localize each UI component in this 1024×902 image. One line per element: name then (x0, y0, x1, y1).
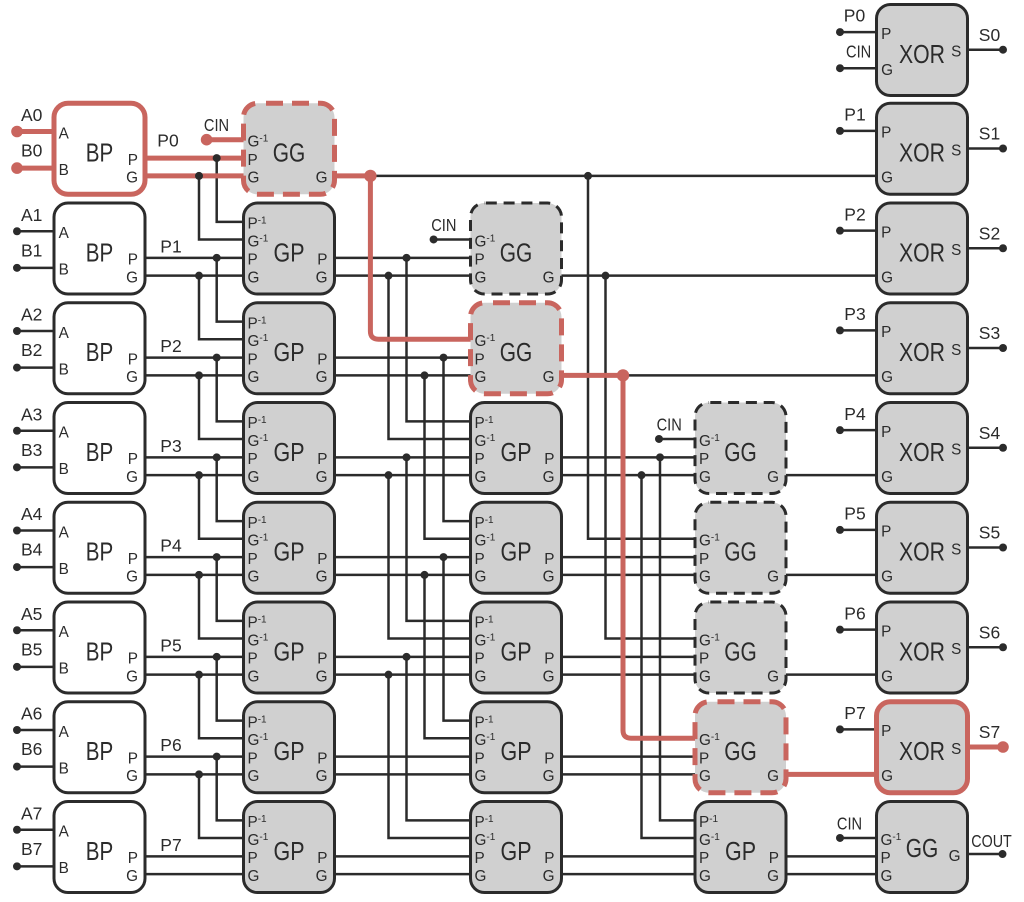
output terminal dot S4 (999, 444, 1007, 452)
svg-text:G: G (316, 469, 328, 486)
svg-text:P: P (475, 252, 485, 269)
svg-text:G: G (316, 868, 328, 885)
svg-text:P: P (475, 451, 485, 468)
buffer/propagate block BP7 (bit 7 inputs) (54, 802, 145, 893)
svg-text:G: G (881, 868, 893, 885)
group-propagate block GP level1 row2 (244, 303, 335, 394)
wire level1 row2 P down to level2 row4 P-1 input (444, 358, 471, 521)
svg-text:B3: B3 (21, 440, 42, 460)
svg-text:XOR: XOR (899, 239, 945, 267)
output terminal dot S7 (997, 741, 1009, 753)
input stub CIN to level2 GG row1 (434, 238, 471, 241)
svg-text:P: P (475, 750, 485, 767)
wire level2 row4 P out to level3 row4 (562, 556, 696, 559)
svg-text:XOR: XOR (899, 339, 945, 367)
svg-text:A: A (59, 225, 70, 242)
input terminal dot B5 (13, 663, 21, 671)
svg-text:A: A (59, 425, 70, 442)
svg-text:P: P (128, 651, 138, 668)
svg-text:G: G (543, 269, 555, 286)
buffer/propagate block BP4 (bit 4 inputs) (54, 502, 145, 593)
wire level2 row4 G out to level3 row4 (562, 574, 696, 577)
svg-text:B5: B5 (21, 639, 42, 659)
svg-text:P: P (248, 551, 258, 568)
junction level1 row1 P tap (403, 254, 411, 262)
input terminal dot A0 (11, 126, 23, 138)
svg-text:P7: P7 (160, 835, 181, 855)
input terminal dot B2 (13, 364, 21, 372)
group-generate block GG level2 row1 (carry c2) (471, 203, 562, 294)
sum XOR block S7 (877, 702, 968, 793)
wire carry c3 to XOR S3 G input (623, 374, 877, 377)
group-generate block GG level3 row4 (carry c5) (695, 502, 786, 593)
input terminal dot P0 (XOR S0) (836, 28, 844, 36)
wire carry c7 (highlighted) GG level3 row6 out to XOR S7 G input (786, 772, 877, 777)
svg-text:P: P (317, 850, 327, 867)
input stub B5 (17, 666, 54, 669)
input terminal dot A6 (13, 726, 21, 734)
svg-text:B: B (59, 461, 69, 478)
junction level2 row3 G tap (638, 471, 646, 479)
group-generate block GG level3 row5 (carry c6) (695, 602, 786, 693)
wire P1 tap down to level1 row2 P-1 input (217, 258, 244, 322)
svg-text:P4: P4 (844, 404, 866, 424)
svg-text:B: B (59, 561, 69, 578)
input terminal dot B4 (13, 563, 21, 571)
svg-text:G: G (767, 469, 779, 486)
wire level2 row3 G out to level3 row3 (562, 474, 696, 477)
input stub CIN to XOR S0 G (840, 67, 877, 70)
svg-text:P2: P2 (160, 336, 181, 356)
output stub S1 (968, 147, 1004, 150)
svg-text:G: G (248, 469, 260, 486)
output stub S7 (968, 745, 1004, 750)
svg-text:G: G (316, 269, 328, 286)
input terminal dot P3 (XOR) (836, 326, 844, 334)
svg-text:G: G (475, 369, 487, 386)
wire G0 tap down to level1 row1 G-1 input (199, 176, 244, 240)
svg-text:BP: BP (86, 638, 114, 666)
svg-text:A7: A7 (21, 803, 42, 823)
svg-text:GP: GP (501, 738, 532, 766)
wire carry c3 (highlighted) GG level2 row2 out to junction (562, 373, 624, 378)
wire G3 from BP3 to level1 row3 (145, 474, 244, 477)
input terminal dot B7 (13, 862, 21, 870)
svg-text:S5: S5 (979, 523, 1000, 543)
wire level1 row2 G down to level2 row4 G-1 input (425, 375, 471, 538)
svg-text:A: A (59, 524, 70, 541)
wire level1 row3 G down to level2 row5 G-1 input (389, 475, 471, 638)
wire level2 row6 G out to level3 row6 (562, 773, 696, 776)
input terminal dot B0 (11, 162, 23, 174)
wire G7 from BP7 to level1 row7 (145, 873, 244, 876)
svg-text:P: P (248, 351, 258, 368)
svg-text:P: P (317, 451, 327, 468)
svg-text:GG: GG (724, 738, 757, 766)
svg-text:XOR: XOR (899, 41, 945, 69)
wire P6 from BP6 to level1 row6 (145, 755, 244, 758)
output terminal dot S1 (999, 145, 1007, 153)
svg-text:S: S (951, 342, 961, 359)
junction level1 row5 G tap (385, 671, 393, 679)
svg-text:G: G (126, 569, 138, 586)
wire level1 row5 P out to level2 row5 (335, 656, 471, 659)
wire carry c4 GG level3 row3 out to XOR S4 G input (786, 474, 877, 477)
svg-text:CIN: CIN (204, 115, 229, 135)
svg-text:GP: GP (274, 339, 305, 367)
svg-text:G: G (767, 668, 779, 685)
svg-text:B2: B2 (21, 340, 42, 360)
svg-text:P3: P3 (844, 304, 865, 324)
output stub S3 (968, 347, 1004, 350)
output stub S0 (968, 48, 1004, 51)
group-propagate block GP level1 row4 (244, 502, 335, 593)
svg-text:G: G (881, 569, 893, 586)
wire carry c1 (highlighted) down to GG level2 row2 G-1 input (370, 176, 470, 339)
svg-text:XOR: XOR (899, 738, 945, 766)
input terminal dot P5 (XOR) (836, 526, 844, 534)
svg-text:G: G (881, 269, 893, 286)
svg-text:G: G (881, 62, 893, 79)
wire level1 row4 P out to level2 row4 (335, 556, 471, 559)
svg-text:A: A (59, 624, 70, 641)
input stub P3 to XOR S3 (840, 329, 877, 332)
wire level1 row7 G out to level2 row7 (335, 873, 471, 876)
svg-text:A: A (59, 125, 70, 142)
svg-text:P: P (317, 750, 327, 767)
wire carry c2 down to GG level3 row5 G-1 input (606, 276, 696, 639)
svg-text:XOR: XOR (899, 439, 945, 467)
wire carry c1 to XOR S1 G input (370, 175, 876, 178)
svg-text:S: S (951, 641, 961, 658)
group-propagate block GP level1 row6 (244, 702, 335, 793)
svg-text:S1: S1 (979, 124, 1000, 144)
svg-text:A: A (59, 724, 70, 741)
svg-text:A6: A6 (21, 704, 42, 724)
wire G1 tap down to level1 row2 G-1 input (199, 276, 244, 340)
wire level2 row7 G out to level3 row7 (562, 873, 696, 876)
svg-text:P: P (881, 424, 891, 441)
junction level1 row3 P tap (403, 453, 411, 461)
svg-text:P: P (128, 152, 138, 169)
junction carry c1 (highlighted) (364, 170, 376, 182)
wire P1 from BP1 to level1 row1 (145, 257, 244, 260)
output stub S5 (968, 546, 1004, 549)
output stub S6 (968, 646, 1004, 649)
svg-text:A0: A0 (21, 105, 43, 125)
svg-text:S: S (951, 242, 961, 259)
svg-text:BP: BP (86, 439, 114, 467)
svg-text:G: G (126, 269, 138, 286)
svg-text:G: G (699, 569, 711, 586)
input terminal dot P2 (XOR) (836, 227, 844, 235)
svg-text:P: P (128, 850, 138, 867)
wire level2 row7 P out to level3 row7 (562, 855, 696, 858)
svg-text:P0: P0 (157, 130, 179, 150)
wire P5 from BP5 to level1 row5 (145, 656, 244, 659)
output terminal dot S2 (999, 244, 1007, 252)
junction carry c2 vertical (602, 272, 610, 280)
group-propagate block GP level1 row5 (244, 602, 335, 693)
buffer/propagate block BP6 (bit 6 inputs) (54, 702, 145, 793)
svg-text:P1: P1 (844, 105, 865, 125)
svg-text:P: P (317, 651, 327, 668)
wire level2 row6 P out to level3 row6 (562, 755, 696, 758)
svg-text:A2: A2 (21, 305, 42, 325)
svg-text:A5: A5 (21, 604, 42, 624)
wire level1 row1 G down to level2 row3 G-1 input (389, 276, 471, 439)
svg-text:G: G (475, 668, 487, 685)
wire G2 from BP2 to level1 row2 (145, 374, 244, 377)
input terminal dot CIN (level2 GG) (430, 235, 438, 243)
wire level2 row3 P out to level3 row3 (562, 456, 696, 459)
wire level1 row5 G down to level2 row7 G-1 input (389, 675, 471, 838)
svg-text:G: G (767, 569, 779, 586)
svg-text:G: G (699, 668, 711, 685)
svg-text:BP: BP (86, 738, 114, 766)
input terminal dot B3 (13, 463, 21, 471)
wire level1 row3 P down to level2 row5 P-1 input (407, 457, 471, 620)
svg-text:BP: BP (86, 539, 114, 567)
junction carry c3 (highlighted) (617, 369, 629, 381)
svg-text:G: G (881, 469, 893, 486)
output terminal dot S5 (999, 544, 1007, 552)
svg-text:G: G (475, 768, 487, 785)
group-propagate block GP level2 row5 (471, 602, 562, 693)
svg-text:BP: BP (86, 838, 114, 866)
sum XOR block S4 (877, 403, 968, 494)
svg-text:P: P (248, 451, 258, 468)
svg-text:B6: B6 (21, 739, 42, 759)
svg-text:S6: S6 (979, 622, 1000, 642)
group-propagate block GP level1 row7 (244, 802, 335, 893)
wire level1 row5 P down to level2 row7 P-1 input (407, 657, 471, 821)
svg-text:A4: A4 (21, 504, 43, 524)
wire carry c1 down to GG level3 row4 G-1 input (588, 176, 695, 539)
svg-text:G: G (881, 369, 893, 386)
wire level1 row6 P out to level2 row6 (335, 755, 471, 758)
wire level1 row4 G out to level2 row4 (335, 574, 471, 577)
svg-text:A: A (59, 325, 70, 342)
wire G5 from BP5 to level1 row5 (145, 673, 244, 676)
input stub A0 (17, 129, 54, 134)
svg-text:COUT: COUT (971, 831, 1012, 851)
sum XOR block S2 (877, 203, 968, 294)
input stub P6 to XOR S6 (840, 628, 877, 631)
input stub A3 (17, 430, 54, 433)
junction carry c1 vertical (584, 172, 592, 180)
group-propagate block GP level2 row4 (471, 502, 562, 593)
wire level1 row1 G out to level2 row1 (335, 274, 471, 277)
junction P3 tap (213, 453, 221, 461)
input terminal dot A7 (13, 826, 21, 834)
svg-text:P: P (544, 850, 554, 867)
junction G1 tap (195, 272, 203, 280)
svg-text:GG: GG (500, 239, 533, 267)
svg-text:G: G (248, 768, 260, 785)
svg-text:P: P (699, 451, 709, 468)
wire level2 row5 P out to level3 row5 (562, 656, 696, 659)
svg-text:G: G (126, 868, 138, 885)
svg-text:G: G (248, 868, 260, 885)
junction G5 tap (195, 671, 203, 679)
input stub P1 to XOR S1 (840, 130, 877, 133)
wire level1 row2 P out to level2 row2 (335, 356, 471, 359)
svg-text:P: P (128, 750, 138, 767)
input terminal dot A3 (13, 427, 21, 435)
svg-text:S2: S2 (979, 223, 1000, 243)
svg-text:A: A (59, 824, 70, 841)
svg-text:GG: GG (500, 339, 533, 367)
junction G4 tap (195, 571, 203, 579)
svg-text:CIN: CIN (837, 813, 862, 833)
junction P6 tap (213, 753, 221, 761)
svg-text:B: B (59, 661, 69, 678)
junction level2 row3 P tap (656, 453, 664, 461)
wire G2 tap down to level1 row3 G-1 input (199, 375, 244, 439)
input terminal dot P4 (XOR) (836, 426, 844, 434)
svg-text:P3: P3 (160, 436, 181, 456)
input terminal dot A5 (13, 626, 21, 634)
svg-text:G: G (126, 369, 138, 386)
wire G0 from BP0 to level1 row0 (145, 173, 244, 178)
junction P1 tap (213, 254, 221, 262)
svg-text:GP: GP (501, 838, 532, 866)
svg-text:P: P (699, 551, 709, 568)
svg-text:G: G (475, 469, 487, 486)
wire P4 from BP4 to level1 row4 (145, 556, 244, 559)
junction P2 tap (213, 354, 221, 362)
svg-text:G: G (248, 369, 260, 386)
svg-text:G: G (316, 668, 328, 685)
output terminal dot S6 (999, 643, 1007, 651)
svg-text:P: P (248, 750, 258, 767)
svg-text:P: P (881, 524, 891, 541)
input stub P0 to XOR S0 (840, 31, 877, 34)
svg-text:P6: P6 (844, 603, 865, 623)
wire G4 tap down to level1 row5 G-1 input (199, 575, 244, 639)
input stub B3 (17, 466, 54, 469)
svg-text:GP: GP (501, 439, 532, 467)
input stub A1 (17, 230, 54, 233)
svg-text:GP: GP (274, 738, 305, 766)
svg-text:G: G (248, 569, 260, 586)
svg-text:P: P (769, 850, 779, 867)
svg-text:GP: GP (274, 838, 305, 866)
svg-text:P: P (881, 850, 891, 867)
svg-text:G: G (881, 668, 893, 685)
svg-text:P4: P4 (160, 536, 182, 556)
input stub A5 (17, 629, 54, 632)
svg-text:BP: BP (86, 339, 114, 367)
input stub CIN to level3 GG row3 (659, 438, 695, 441)
svg-text:B: B (59, 162, 69, 179)
svg-text:G: G (126, 668, 138, 685)
wire level1 row1 P down to level2 row3 P-1 input (407, 258, 471, 422)
wire level1 row1 P out to level2 row1 (335, 257, 471, 260)
svg-text:G: G (475, 868, 487, 885)
input terminal dot A4 (13, 527, 21, 535)
wire level1 row3 G out to level2 row3 (335, 474, 471, 477)
junction G6 tap (195, 770, 203, 778)
svg-text:S: S (951, 442, 961, 459)
svg-text:P: P (248, 152, 258, 169)
group-generate block GG level2 row2 (carry c3, highlighted) (471, 303, 562, 394)
group-generate block GG level1 row0 (carry c1, highlighted) (244, 103, 335, 194)
wire level1 row5 G out to level2 row5 (335, 673, 471, 676)
wire level1 row4 P down to level2 row6 P-1 input (444, 557, 471, 721)
wire G5 tap down to level1 row6 G-1 input (199, 675, 244, 739)
svg-text:P: P (699, 750, 709, 767)
svg-text:GG: GG (724, 638, 757, 666)
junction level1 row2 P tap (440, 354, 448, 362)
junction level1 row4 P tap (440, 553, 448, 561)
input terminal dot CIN (level3 GG) (655, 435, 663, 443)
output stub COUT (968, 853, 1003, 856)
svg-text:A1: A1 (21, 205, 42, 225)
svg-text:P5: P5 (844, 504, 865, 524)
wire level1 row2 G out to level2 row2 (335, 374, 471, 377)
junction level1 row5 P tap (403, 653, 411, 661)
svg-text:P: P (248, 850, 258, 867)
input stub CIN to level1 GG row0 (207, 137, 244, 142)
svg-text:G: G (316, 170, 328, 187)
svg-text:G: G (699, 868, 711, 885)
wire level2 row5 G out to level3 row5 (562, 673, 696, 676)
svg-text:P: P (128, 451, 138, 468)
svg-text:XOR: XOR (899, 539, 945, 567)
svg-text:P: P (128, 252, 138, 269)
wire P3 from BP3 to level1 row3 (145, 456, 244, 459)
junction P4 tap (213, 553, 221, 561)
svg-text:P5: P5 (160, 635, 181, 655)
svg-text:P: P (881, 723, 891, 740)
output terminal dot S0 (999, 46, 1007, 54)
svg-text:B: B (59, 860, 69, 877)
svg-text:GP: GP (274, 239, 305, 267)
junction level1 row2 G tap (421, 371, 429, 379)
input stub A6 (17, 729, 54, 732)
input stub CIN to carry-out GG (840, 837, 877, 840)
input stub B4 (17, 566, 54, 569)
input stub B6 (17, 765, 54, 768)
svg-text:P: P (248, 252, 258, 269)
svg-text:G: G (126, 469, 138, 486)
svg-text:GP: GP (501, 539, 532, 567)
input terminal dot P6 (XOR) (836, 626, 844, 634)
wire P0 from BP0 to level1 row0 (145, 156, 244, 161)
svg-text:B4: B4 (21, 540, 43, 560)
svg-text:P: P (544, 451, 554, 468)
group-propagate block GP level2 row6 (471, 702, 562, 793)
sum XOR block S1 (877, 103, 968, 194)
svg-text:P: P (248, 651, 258, 668)
sum XOR block S6 (877, 602, 968, 693)
svg-text:S7: S7 (979, 722, 1000, 742)
svg-text:G: G (248, 668, 260, 685)
wire level1 row3 P out to level2 row3 (335, 456, 471, 459)
input stub B0 (17, 166, 54, 171)
svg-text:S: S (951, 142, 961, 159)
input terminal dot P7 (XOR) (836, 725, 844, 733)
input stub B7 (17, 865, 54, 868)
svg-text:G: G (543, 369, 555, 386)
svg-text:G: G (543, 469, 555, 486)
svg-text:G: G (475, 569, 487, 586)
svg-text:G: G (316, 569, 328, 586)
input terminal dot B1 (13, 264, 21, 272)
wire G1 from BP1 to level1 row1 (145, 274, 244, 277)
